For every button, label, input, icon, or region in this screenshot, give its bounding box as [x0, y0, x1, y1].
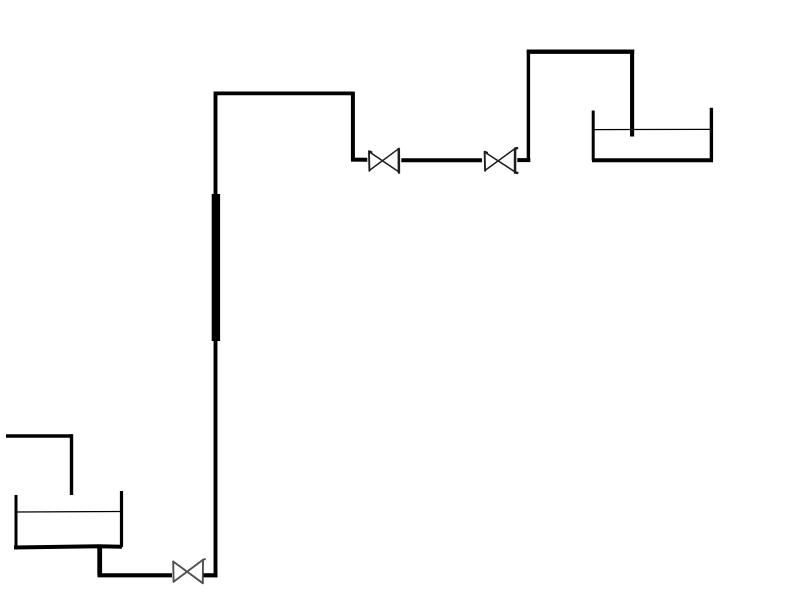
wire step-down drop at x=353 [351, 92, 355, 160]
tank T2 water level line [594, 128, 711, 130]
wire bottom horizontal run to valve V1 [98, 573, 173, 577]
valve V1 (gate valve, bottom line) [173, 559, 205, 583]
wire drop into tank T2 [630, 50, 634, 137]
wire stub from valve V3 to step-up [517, 158, 530, 162]
wire main vertical riser [214, 94, 218, 578]
tank T1 left wall [15, 495, 18, 548]
valve V3 (gate valve, mid line right) [485, 148, 518, 173]
tank T2 bottom [592, 158, 713, 162]
wire inlet pipe drop into tank T1 [70, 434, 73, 495]
wire tank T1 outlet drop [97, 547, 102, 575]
wire valve V1 outlet stub to riser [204, 573, 218, 577]
tank T1 right wall [120, 491, 123, 547]
valve V2 (gate valve, mid line left) [369, 149, 399, 173]
tank T1 water level line [16, 511, 121, 514]
tank T2 right wall [710, 108, 713, 161]
wire run between valve V2 and valve V3 [401, 158, 482, 162]
wire inlet pipe top-left horizontal [6, 434, 72, 438]
wire upper horizontal run 1 [214, 92, 353, 96]
tank T2 left wall [592, 111, 595, 161]
wire stub to valve V2 [351, 158, 367, 162]
tank T1 bottom [14, 546, 122, 547]
wire upper horizontal run 2 [527, 50, 634, 54]
pipe thick section (heavy segment on riser) [212, 194, 220, 341]
wire step-up rise at x=528.5 [527, 50, 530, 162]
